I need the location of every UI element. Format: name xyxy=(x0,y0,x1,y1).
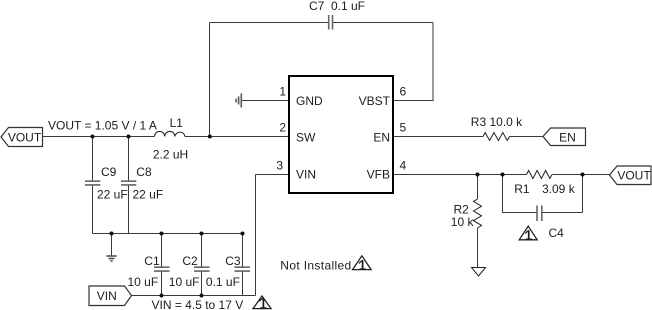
svg-text:10 uF: 10 uF xyxy=(128,275,159,289)
svg-text:C1: C1 xyxy=(144,254,160,268)
svg-text:3.09 k: 3.09 k xyxy=(542,182,576,196)
svg-text:22 uF: 22 uF xyxy=(133,188,164,202)
svg-text:EN: EN xyxy=(559,130,576,144)
svg-text:3: 3 xyxy=(276,159,283,173)
svg-text:VIN = 4.5 to 17 V: VIN = 4.5 to 17 V xyxy=(152,298,244,310)
svg-text:5: 5 xyxy=(400,121,407,135)
svg-text:VOUT: VOUT xyxy=(8,130,42,144)
svg-text:SW: SW xyxy=(296,130,316,144)
svg-text:10 k: 10 k xyxy=(451,215,475,229)
svg-text:R1: R1 xyxy=(514,182,530,196)
svg-text:VIN: VIN xyxy=(97,289,117,303)
svg-text:1: 1 xyxy=(279,85,286,99)
svg-text:C8: C8 xyxy=(136,165,152,179)
svg-text:GND: GND xyxy=(296,94,323,108)
svg-text:C9: C9 xyxy=(101,165,117,179)
svg-text:R3 10.0 k: R3 10.0 k xyxy=(471,115,523,129)
svg-text:VFB: VFB xyxy=(367,167,390,181)
svg-text:VOUT: VOUT xyxy=(617,168,651,182)
svg-text:C4: C4 xyxy=(549,226,565,240)
svg-text:22 uF: 22 uF xyxy=(97,188,128,202)
svg-text:L1: L1 xyxy=(170,116,184,130)
svg-text:6: 6 xyxy=(400,85,407,99)
svg-text:C2: C2 xyxy=(182,254,198,268)
svg-text:EN: EN xyxy=(373,130,390,144)
svg-text:C3: C3 xyxy=(225,254,241,268)
svg-text:10 uF: 10 uF xyxy=(169,275,200,289)
svg-text:C7 0.1 uF: C7 0.1 uF xyxy=(309,0,365,13)
svg-text:2.2 uH: 2.2 uH xyxy=(153,148,188,162)
svg-text:VOUT = 1.05 V / 1 A: VOUT = 1.05 V / 1 A xyxy=(48,119,157,133)
svg-text:VIN: VIN xyxy=(296,167,316,181)
svg-text:Not Installed: Not Installed xyxy=(280,258,351,272)
svg-text:2: 2 xyxy=(279,121,286,135)
svg-text:VBST: VBST xyxy=(359,94,391,108)
svg-text:4: 4 xyxy=(400,159,407,173)
svg-text:0.1 uF: 0.1 uF xyxy=(206,275,240,289)
